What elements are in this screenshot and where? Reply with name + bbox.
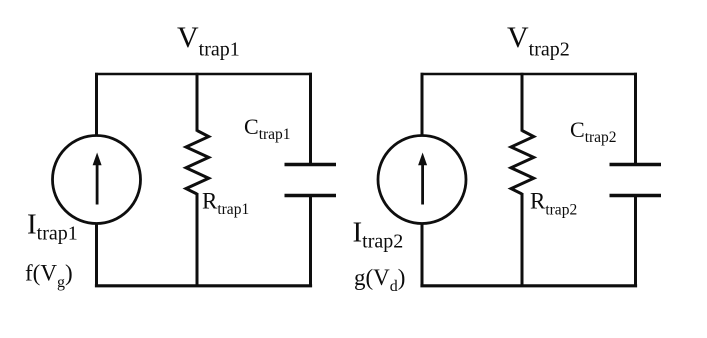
wire bottom rail left circuit (95, 284, 312, 287)
capacitor C_trap2 bottom plate (610, 194, 662, 198)
wire top rail left circuit (95, 73, 312, 76)
svg-text:Vtrap1: Vtrap1 (177, 21, 240, 61)
capacitor C_trap1 top plate (285, 163, 337, 167)
wire right branch lower (left circuit) (309, 196, 312, 288)
wire right branch upper (left circuit) (309, 73, 312, 165)
current source I_trap1 arrow (93, 153, 102, 205)
svg-text:g(Vd): g(Vd) (354, 265, 405, 295)
svg-text:Vtrap2: Vtrap2 (507, 21, 570, 61)
wire middle branch upper (left circuit) (196, 73, 199, 132)
capacitor C_trap2 top plate (610, 163, 662, 167)
current source I_trap2 circle (378, 136, 466, 224)
svg-text:Rtrap2: Rtrap2 (530, 188, 577, 218)
wire middle branch lower (left circuit) (196, 193, 199, 287)
current source I_trap1 circle (53, 136, 141, 224)
wire left branch upper (left circuit) (95, 73, 98, 136)
resistor R_trap2 zigzag (511, 131, 534, 195)
wire right branch lower (right circuit) (634, 196, 637, 288)
current source I_trap2 arrow (418, 153, 427, 205)
capacitor C_trap1 bottom plate (285, 194, 337, 198)
wire left branch lower (right circuit) (421, 223, 424, 287)
wire top rail right circuit (421, 73, 638, 76)
wire middle branch lower (right circuit) (521, 193, 524, 287)
wire left branch lower (left circuit) (95, 223, 98, 287)
svg-text:Ctrap2: Ctrap2 (570, 117, 617, 146)
wire left branch upper (right circuit) (421, 73, 424, 136)
svg-text:Rtrap1: Rtrap1 (202, 188, 249, 218)
svg-text:Ctrap1: Ctrap1 (244, 114, 291, 143)
wire bottom rail right circuit (420, 284, 637, 287)
resistor R_trap1 zigzag (186, 131, 209, 195)
wire middle branch upper (right circuit) (521, 73, 524, 132)
wire right branch upper (right circuit) (634, 73, 637, 165)
svg-text:f(Vg): f(Vg) (25, 261, 73, 292)
svg-text:Itrap2: Itrap2 (353, 217, 404, 253)
